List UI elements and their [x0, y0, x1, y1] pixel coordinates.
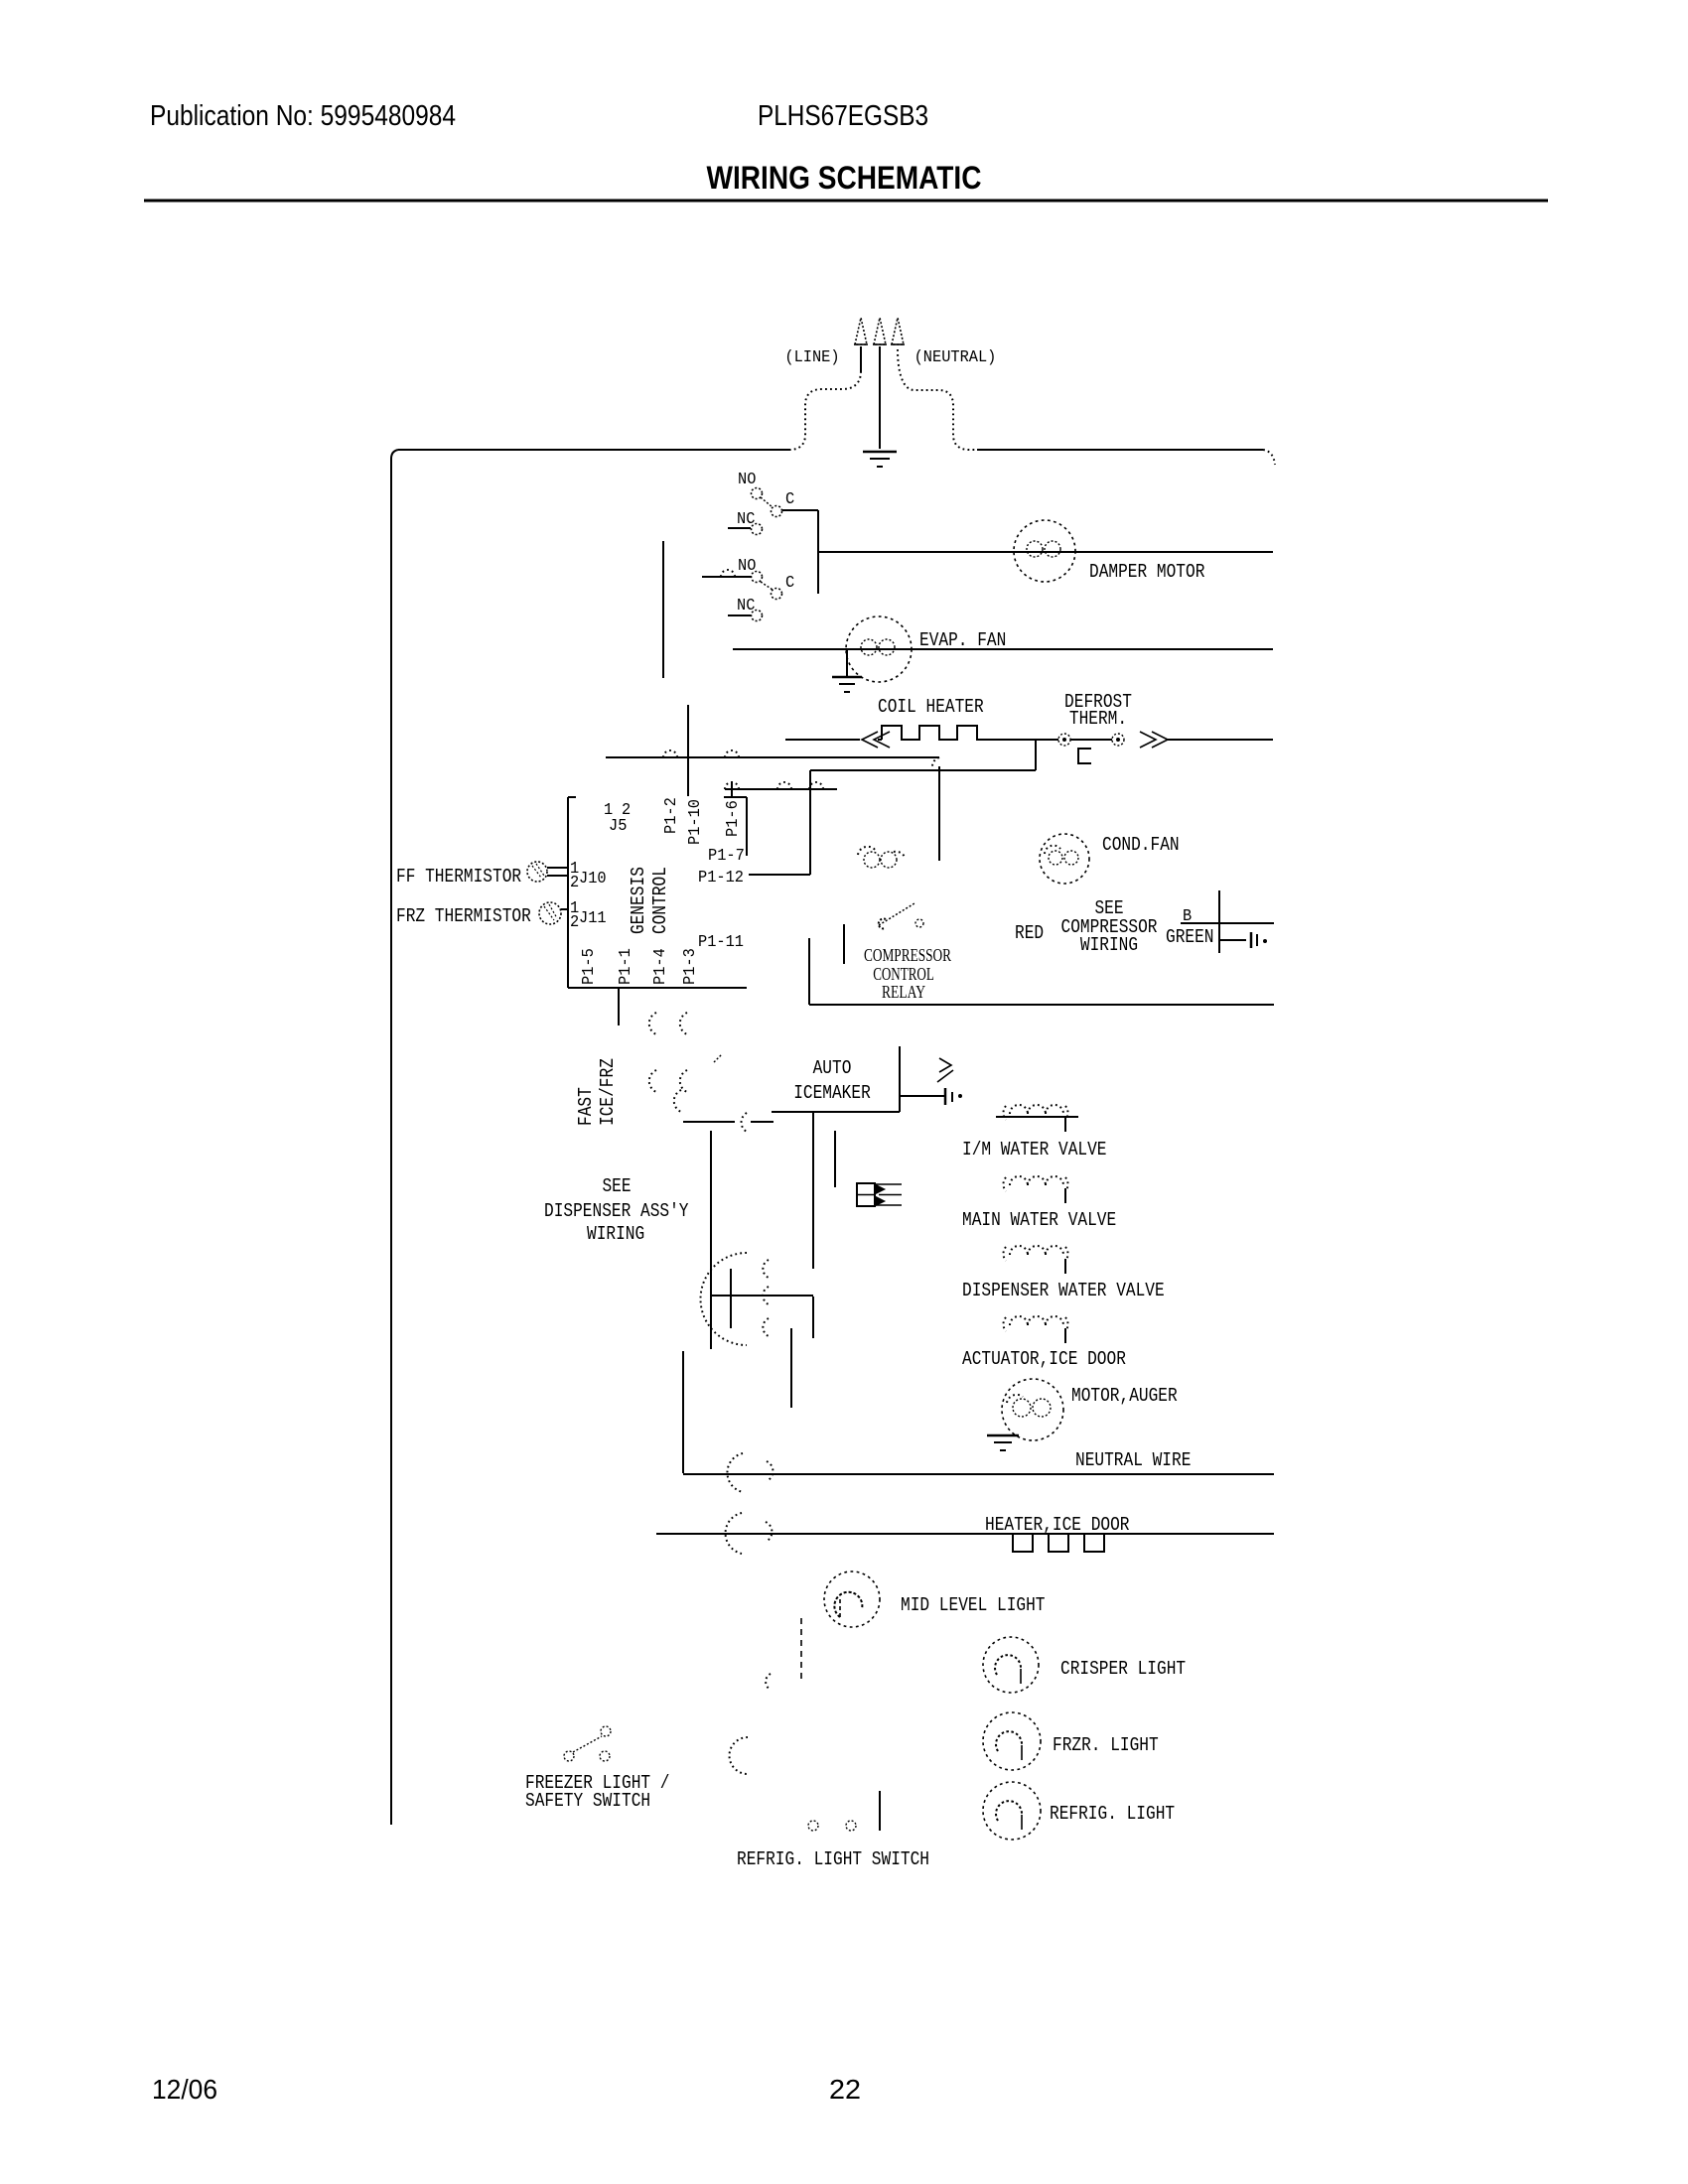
- svg-text:AUTO: AUTO: [813, 1057, 852, 1079]
- svg-text:MAIN WATER VALVE: MAIN WATER VALVE: [962, 1209, 1116, 1231]
- svg-text:HEATER,ICE DOOR: HEATER,ICE DOOR: [985, 1514, 1130, 1536]
- svg-text:P1-4: P1-4: [651, 948, 670, 985]
- svg-text:CRISPER LIGHT: CRISPER LIGHT: [1060, 1658, 1186, 1680]
- svg-text:NC: NC: [737, 597, 755, 615]
- svg-text:CONTROL: CONTROL: [873, 964, 934, 984]
- svg-text:P1-1: P1-1: [617, 948, 635, 985]
- svg-text:COIL HEATER: COIL HEATER: [878, 696, 984, 718]
- svg-text:THERM.: THERM.: [1069, 708, 1127, 730]
- svg-text:COND.FAN: COND.FAN: [1102, 834, 1180, 856]
- svg-text:NC: NC: [737, 510, 755, 529]
- svg-text:P1-11: P1-11: [698, 933, 744, 952]
- svg-text:C: C: [785, 574, 794, 593]
- svg-text:P1-5: P1-5: [580, 948, 599, 985]
- svg-text:J11: J11: [579, 909, 607, 928]
- svg-text:NEUTRAL WIRE: NEUTRAL WIRE: [1075, 1449, 1191, 1471]
- svg-text:P1-12: P1-12: [698, 869, 744, 887]
- svg-text:COMPRESSOR: COMPRESSOR: [864, 945, 951, 965]
- svg-text:SEE: SEE: [602, 1175, 631, 1197]
- svg-text:C: C: [785, 490, 794, 509]
- svg-text:RELAY: RELAY: [882, 982, 925, 1002]
- svg-text:RED: RED: [1015, 922, 1044, 944]
- svg-text:J10: J10: [579, 870, 607, 888]
- svg-text:SAFETY SWITCH: SAFETY SWITCH: [525, 1790, 650, 1812]
- svg-text:ICEMAKER: ICEMAKER: [793, 1082, 871, 1104]
- svg-text:P1-10: P1-10: [686, 799, 705, 845]
- svg-text:I/M WATER VALVE: I/M WATER VALVE: [962, 1139, 1107, 1160]
- svg-text:J5: J5: [609, 817, 627, 836]
- svg-text:Publication No: 5995480984: Publication No: 5995480984: [150, 100, 456, 132]
- svg-text:P1-7: P1-7: [708, 847, 745, 866]
- svg-text:P1-3: P1-3: [681, 948, 700, 985]
- svg-text:NO: NO: [738, 471, 756, 489]
- svg-text:FRZR. LIGHT: FRZR. LIGHT: [1053, 1734, 1159, 1756]
- svg-text:REFRIG. LIGHT SWITCH: REFRIG. LIGHT SWITCH: [737, 1848, 929, 1870]
- svg-text:GREEN: GREEN: [1166, 926, 1214, 948]
- svg-text:FF THERMISTOR: FF THERMISTOR: [396, 866, 521, 887]
- svg-text:WIRING SCHEMATIC: WIRING SCHEMATIC: [707, 160, 982, 196]
- svg-text:DAMPER MOTOR: DAMPER MOTOR: [1089, 561, 1204, 583]
- svg-text:(LINE): (LINE): [784, 348, 839, 367]
- svg-text:PLHS67EGSB3: PLHS67EGSB3: [758, 100, 928, 132]
- svg-text:CONTROL: CONTROL: [649, 867, 671, 934]
- svg-text:P1-2: P1-2: [662, 797, 681, 834]
- svg-text:MID LEVEL LIGHT: MID LEVEL LIGHT: [901, 1594, 1046, 1616]
- svg-text:GENESIS: GENESIS: [628, 867, 649, 934]
- svg-text:WIRING: WIRING: [587, 1223, 644, 1245]
- svg-text:2: 2: [570, 913, 579, 932]
- svg-text:ICE/FRZ: ICE/FRZ: [597, 1058, 619, 1126]
- svg-text:FRZ THERMISTOR: FRZ THERMISTOR: [396, 905, 531, 927]
- svg-text:22: 22: [829, 2074, 861, 2105]
- svg-text:FAST: FAST: [575, 1087, 597, 1126]
- svg-text:MOTOR,AUGER: MOTOR,AUGER: [1071, 1385, 1178, 1407]
- svg-text:WIRING: WIRING: [1080, 934, 1138, 956]
- svg-text:P1-6: P1-6: [724, 800, 743, 837]
- svg-text:DISPENSER ASS'Y: DISPENSER ASS'Y: [544, 1200, 689, 1222]
- svg-text:(NEUTRAL): (NEUTRAL): [914, 348, 997, 367]
- svg-text:2: 2: [570, 874, 579, 892]
- svg-text:EVAP. FAN: EVAP. FAN: [919, 629, 1006, 651]
- svg-text:REFRIG. LIGHT: REFRIG. LIGHT: [1050, 1803, 1175, 1825]
- svg-text:DISPENSER WATER VALVE: DISPENSER WATER VALVE: [962, 1280, 1165, 1301]
- svg-text:ACTUATOR,ICE DOOR: ACTUATOR,ICE DOOR: [962, 1348, 1126, 1370]
- svg-text:12/06: 12/06: [152, 2074, 217, 2105]
